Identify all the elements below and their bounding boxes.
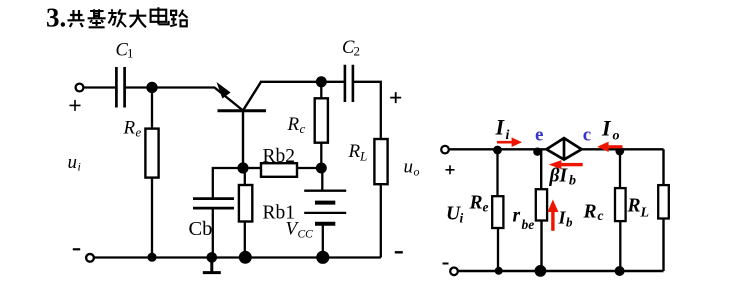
svg-text:I: I [495,115,506,140]
svg-text:u: u [404,157,414,178]
svg-text:R: R [627,196,641,217]
svg-text:e: e [136,125,142,140]
svg-text:o: o [414,165,420,179]
svg-text:L: L [640,206,650,221]
node base-bottom [237,162,248,173]
current source inner line [563,138,566,160]
svg-text:R: R [287,114,300,135]
svg-text:2: 2 [354,44,361,59]
resistor Rc [315,98,328,142]
arrow Io [609,145,623,148]
wire Rc to node [320,143,322,168]
wire Re to bottom rail [497,228,499,271]
wire Rb2 to node [297,167,321,169]
svg-text:c: c [300,121,306,136]
svg-text:e: e [535,125,543,146]
resistor Rb2 [261,163,297,177]
transistor Q1 emitter lead [215,88,244,111]
top rail left [449,148,547,150]
svg-text:r: r [513,206,521,227]
wire node to battery [321,168,323,191]
node e [533,148,541,156]
wire RL to bottom rail [380,184,382,257]
arrow beta-Ib [561,163,582,166]
node top (collector/Rc/C2) [316,76,327,87]
plus sign (output) [390,92,401,103]
wire node A down to Re [151,88,153,130]
node c [615,147,624,156]
svg-text:b: b [569,174,576,189]
svg-text:i: i [78,160,81,174]
svg-text:L: L [359,149,367,164]
plus sign (right circuit) [446,165,455,174]
svg-text:CC: CC [298,229,314,241]
title glyph 大 [129,10,146,28]
wire node to Rb2 [249,167,261,169]
svg-text:I: I [601,116,612,141]
bottom rail (right circuit) [458,270,664,272]
wire N1 to Re [496,149,498,196]
wire C2 to RL [354,82,381,139]
minus sign (output bottom) [395,251,403,253]
node battery-bottom [316,251,329,264]
battery VCC plates [304,191,346,213]
resistor RL (right) [658,185,669,218]
svg-text:e: e [483,200,489,215]
plus sign (input) [70,100,81,111]
resistor RL [374,139,387,184]
svg-text:i: i [506,128,510,143]
svg-text:b: b [566,215,573,230]
resistor Re [145,129,158,178]
minus sign (input bottom) [73,248,80,250]
input terminal T1 (top left) [76,84,84,92]
svg-text:Rb2: Rb2 [263,146,296,167]
wire Rb1 to bottom rail [244,222,246,258]
arrow Ib [551,212,554,231]
capacitor C1 [116,67,124,108]
wire node to Rb1 [244,168,246,185]
wire Rc to bottom rail [619,221,621,271]
node Re-bottom [147,253,156,262]
wire node to Cb [213,168,243,199]
arrow Ii [497,141,513,144]
resistor rbe [536,189,547,220]
node Rb2-right [316,163,327,174]
svg-text:R: R [583,202,597,223]
top rail collector to C2 [260,81,345,83]
node Rb1-bottom [239,251,252,264]
svg-text:R: R [123,118,136,139]
title glyph 基 [88,9,106,27]
transistor Q1 base lead down [242,111,244,169]
title glyph 路 [170,10,187,27]
wire Re to bottom rail [151,177,153,257]
capacitor C2 [345,65,353,102]
node N1 (Re top) [493,146,502,155]
svg-text:be: be [522,217,535,232]
wire Cb to bottom rail [212,208,214,258]
node A (input node) [146,82,157,93]
svg-text:R: R [469,193,483,214]
bottom rail wire [94,256,381,258]
title glyph 电 [151,7,169,24]
wire e down to rbe [540,149,542,189]
svg-text:u: u [68,152,78,173]
node Cb-bottom [207,252,218,263]
current source diamond [547,138,582,160]
transistor Q1 emitter arrow [217,82,231,99]
transistor Q1 base bar [218,109,267,112]
wire rbe to bottom rail [540,221,542,272]
wire RL to bottom rail [662,219,664,272]
svg-text:i: i [460,211,464,226]
transistor Q1 collector lead [243,82,261,111]
svg-text:βI: βI [549,166,569,187]
top rail right [582,148,664,150]
terminal T3 (top left) [441,146,449,154]
title glyph 共 [68,10,85,27]
capacitor Cb [193,199,234,209]
wire node to Rc [320,82,322,99]
title glyph 放 [108,9,126,27]
terminal T4 (bottom left) [450,268,458,276]
resistor Rb1 [239,185,252,222]
wire battery to bottom rail [322,224,324,258]
node N1-bottom [495,267,503,275]
svg-text:R: R [348,141,361,162]
svg-text:c: c [583,125,591,146]
svg-text:o: o [613,129,620,144]
resistor Rc (right) [615,188,626,221]
node Rc-bottom [615,266,625,276]
wire rail to RL [662,149,664,185]
svg-text:1: 1 [127,46,134,61]
svg-text:Cb: Cb [189,218,213,240]
wire c down to Rc [619,149,621,188]
ground [203,258,221,273]
minus sign (right circuit) [443,263,449,265]
svg-text:c: c [598,208,604,223]
svg-text:3.: 3. [46,3,66,33]
wire T1 to C1 [84,86,115,88]
wire C1 to emitter [126,86,215,88]
node rbe-bottom [535,265,547,277]
resistor Re (right) [492,196,503,228]
input terminal T2 (bottom left) [86,254,94,262]
